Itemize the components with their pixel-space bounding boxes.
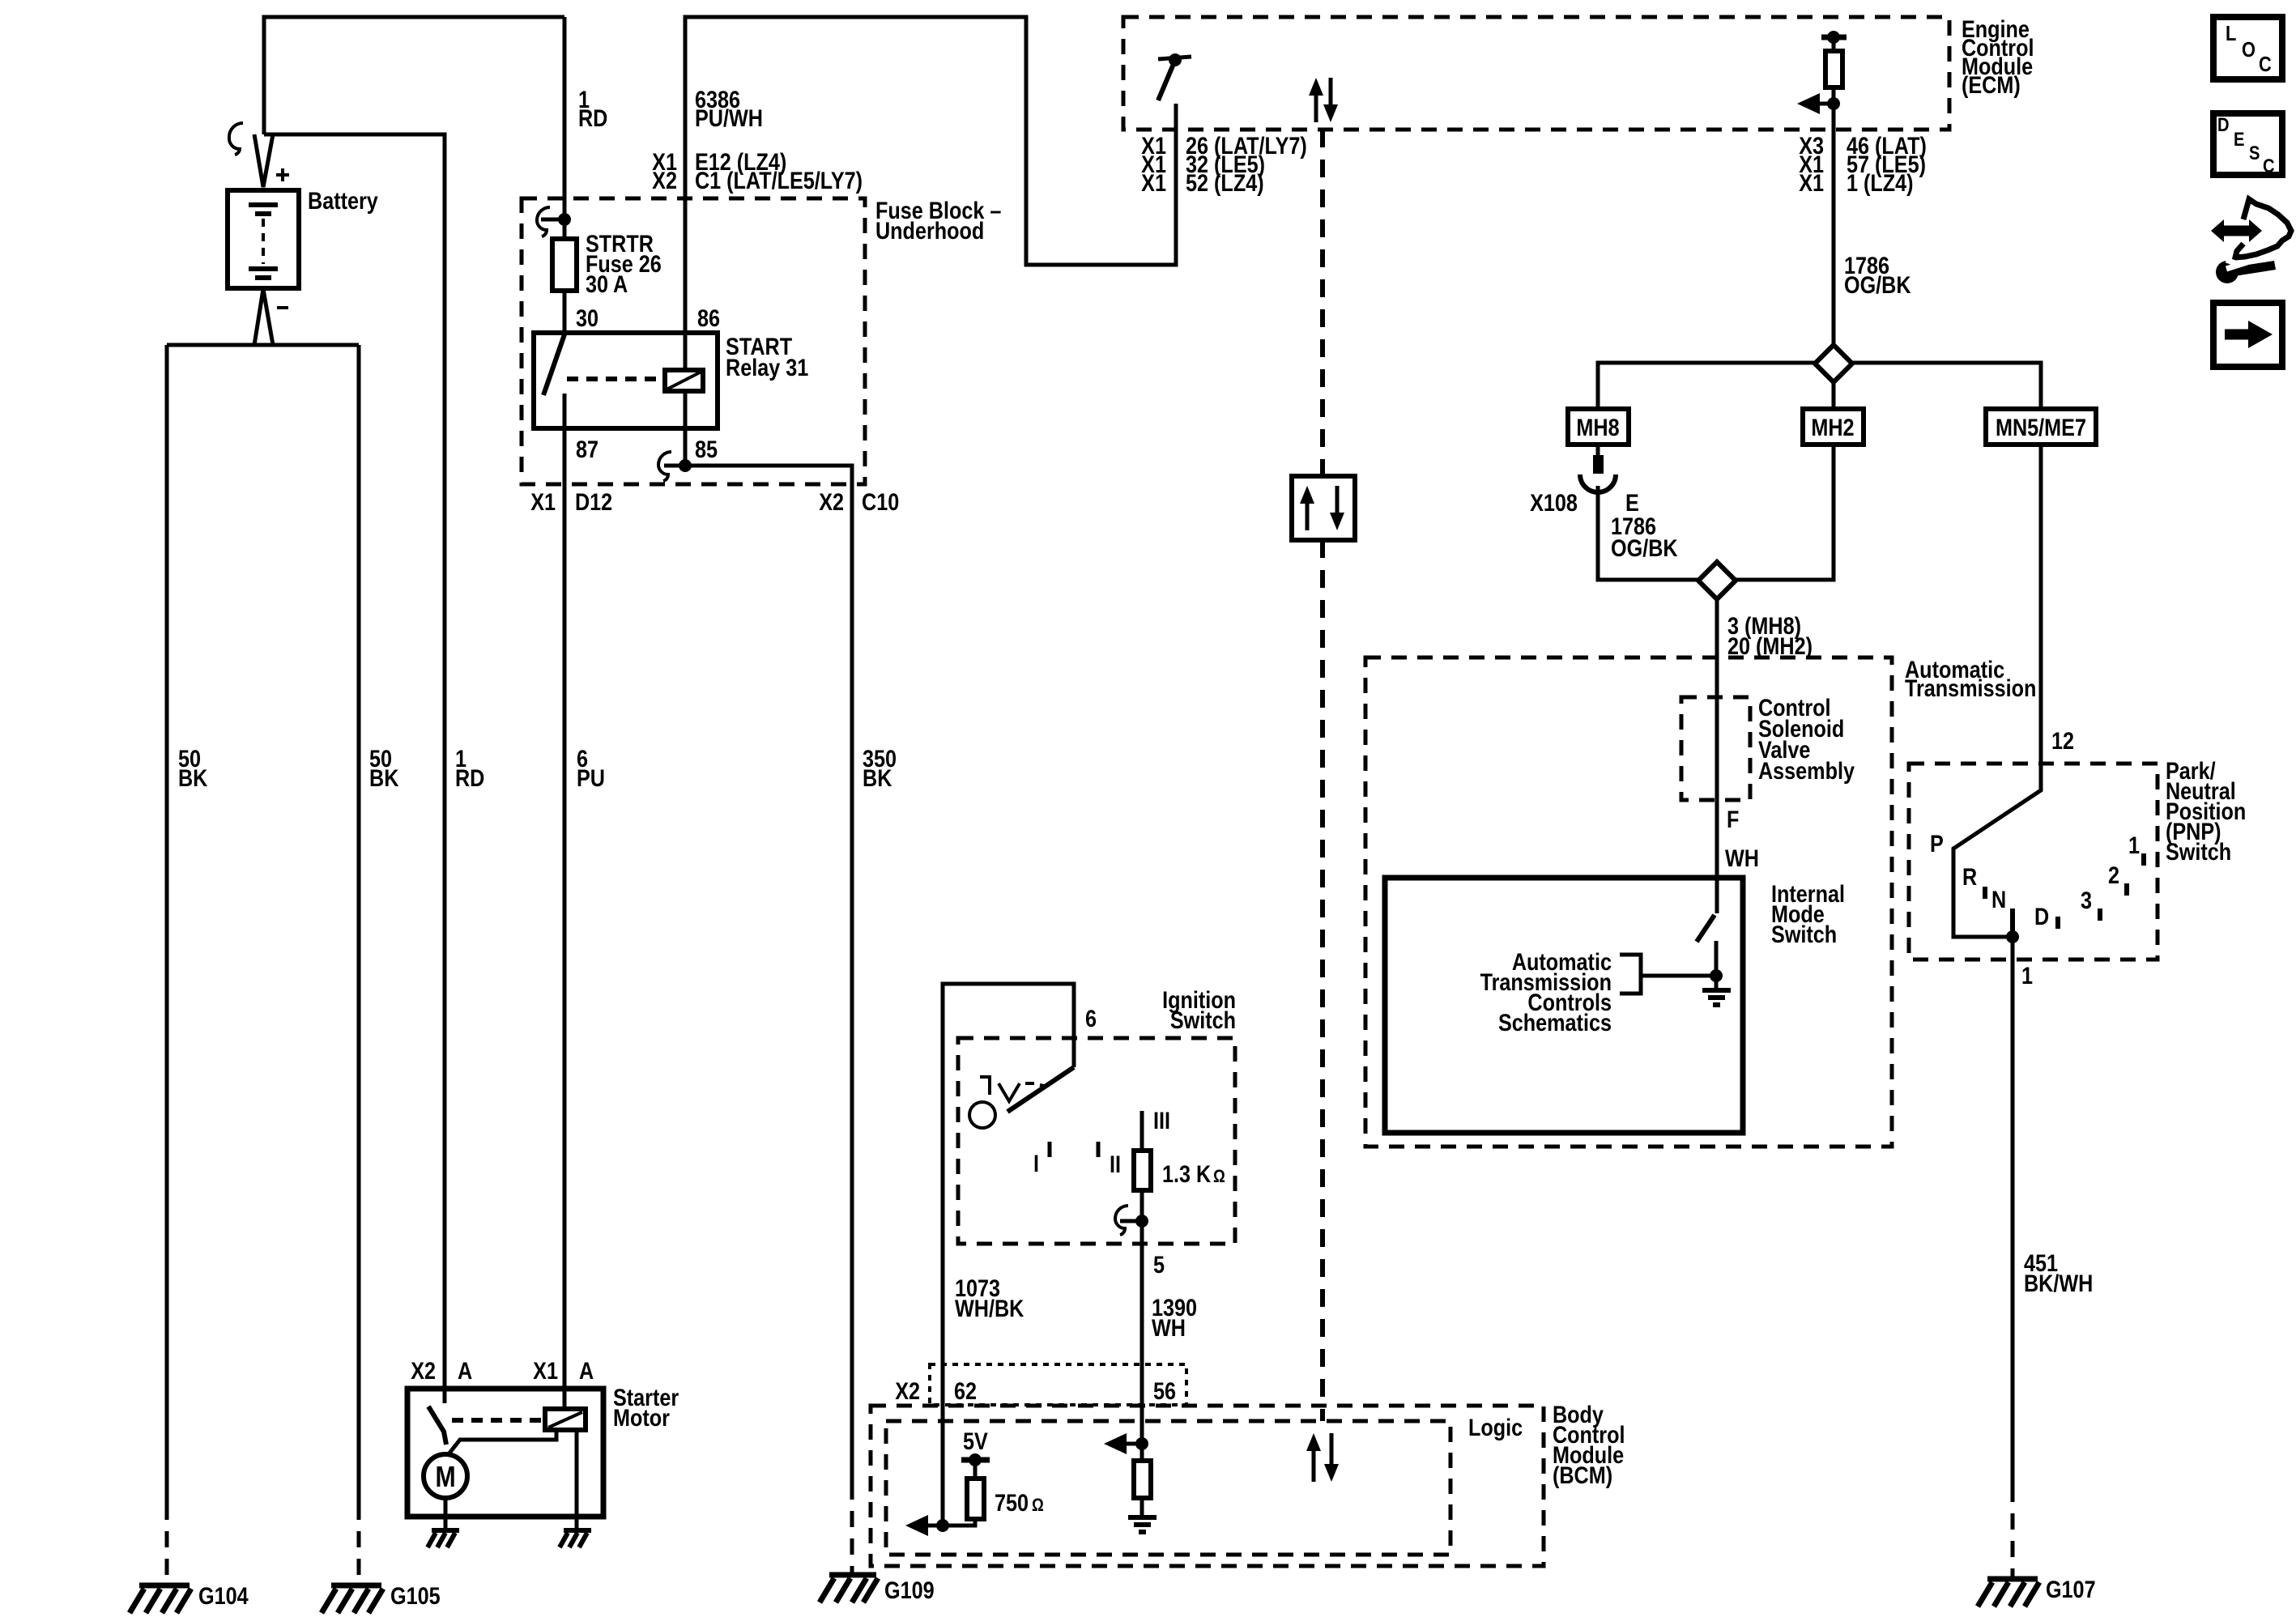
wire 1786 OG/BK from ECM (1832, 130, 1836, 345)
wire 6386 PU/WH (685, 17, 1176, 265)
ECM internal resistor (1832, 37, 1836, 51)
wire 50 BK to G105 (357, 345, 361, 1504)
wire motor to ground (444, 1498, 448, 1530)
ignition switch lever (1007, 1067, 1074, 1112)
wire relay coil to pin 85 (684, 391, 688, 466)
svg-text:62: 62 (954, 1377, 977, 1405)
svg-text:30: 30 (576, 304, 598, 332)
BCM logic data arrows (1306, 1433, 1339, 1482)
svg-text:A: A (579, 1357, 594, 1385)
svg-text:Relay 31: Relay 31 (726, 354, 808, 381)
wire 1 RD battery to starter (264, 134, 445, 1403)
wire splice bus y448 (1598, 363, 2041, 409)
PNP switch dashed box (1909, 764, 2158, 960)
wire 50 BK to G104 (165, 345, 169, 1504)
BCM 5V terminal (961, 1453, 990, 1479)
wire coil to ground (575, 1430, 579, 1530)
svg-text:X1: X1 (530, 488, 556, 516)
BCM logic dashed box (886, 1421, 1450, 1555)
ECM driver switch (1158, 53, 1191, 100)
svg-text:Switch: Switch (1771, 921, 1837, 948)
svg-text:52 (LZ4): 52 (LZ4) (1186, 169, 1264, 197)
svg-text:C10: C10 (862, 488, 899, 516)
svg-text:RD: RD (578, 104, 607, 132)
svg-text:MN5/ME7: MN5/ME7 (1996, 414, 2086, 441)
X108 inline connector (1580, 445, 1616, 492)
wire 1 RD fuse feed (563, 17, 567, 239)
wire MN5/ME7 to PNP pin 12 (1953, 445, 2041, 937)
inner solid box ATCS (1385, 878, 1743, 1133)
svg-text:750: 750 (995, 1489, 1029, 1517)
svg-text:X1: X1 (533, 1357, 558, 1385)
wire battery negative bus (167, 343, 359, 347)
ground starter motor (428, 1530, 459, 1547)
svg-text:(ECM): (ECM) (1962, 71, 2021, 99)
svg-text:BK: BK (369, 764, 398, 792)
starter motor box (407, 1389, 603, 1517)
crimp V at battery positive (254, 134, 273, 187)
svg-text:1.3 K: 1.3 K (1162, 1160, 1211, 1188)
starter solenoid coil (545, 1409, 586, 1430)
starter actuator dashed link (452, 1418, 545, 1423)
ECM B+ terminal (1821, 35, 1847, 40)
internal mode switch (1697, 915, 1723, 982)
svg-text:D: D (2034, 903, 2049, 930)
wire MH2 to lower splice (1736, 445, 1834, 580)
svg-text:G104: G104 (198, 1582, 249, 1610)
battery B1 (228, 168, 299, 308)
svg-text:20 (MH2): 20 (MH2) (1727, 632, 1813, 660)
connector box MN5/ME7 (1986, 409, 2096, 445)
svg-text:MH8: MH8 (1576, 414, 1619, 441)
icon forward arrow box (2213, 303, 2282, 367)
svg-text:Switch: Switch (1170, 1006, 1236, 1034)
svg-text:PU: PU (577, 764, 605, 792)
svg-text:C: C (2263, 155, 2275, 177)
svg-text:Battery: Battery (308, 187, 378, 215)
ignition resistor 1.3 K (1140, 1111, 1144, 1151)
svg-text:Underhood: Underhood (875, 217, 984, 245)
connector box MH2 (1803, 409, 1864, 445)
wire 1786 OG/BK to lower splice (1598, 486, 1698, 580)
svg-text:6: 6 (1085, 1005, 1097, 1032)
bracket to ATCS reference (1620, 955, 1716, 994)
svg-text:WH: WH (1152, 1314, 1186, 1342)
earth ground BCM (1128, 1498, 1157, 1532)
svg-text:L: L (2226, 22, 2236, 45)
ignition position I (1048, 1142, 1052, 1157)
ignition position II (1097, 1142, 1101, 1157)
svg-text:Ω: Ω (1213, 1168, 1225, 1187)
BCM 1390 input arrow junction (1104, 1433, 1148, 1454)
relay coil (665, 370, 703, 391)
wire relay pin 86 from 6386 (684, 198, 688, 370)
svg-text:C: C (2259, 53, 2272, 76)
svg-text:BK: BK (863, 764, 892, 792)
svg-text:MH2: MH2 (1811, 414, 1854, 441)
svg-text:C1 (LAT/LE5/LY7): C1 (LAT/LE5/LY7) (695, 167, 863, 194)
ignition switch dashed box (958, 1038, 1235, 1244)
svg-text:E: E (2234, 128, 2244, 150)
svg-text:O: O (2242, 38, 2256, 62)
icon connector-view hand with arrows and wrench (2211, 199, 2291, 283)
svg-text:Motor: Motor (613, 1404, 670, 1432)
svg-text:1: 1 (2021, 962, 2033, 989)
connector row X2 62/56 dotted box (930, 1364, 1186, 1405)
icon DESC box (2213, 113, 2282, 175)
ground G105 (322, 1585, 383, 1613)
svg-text:WH/BK: WH/BK (955, 1295, 1024, 1322)
svg-text:G107: G107 (2046, 1576, 2096, 1603)
svg-text:D12: D12 (575, 488, 612, 516)
svg-text:5: 5 (1153, 1251, 1165, 1279)
svg-text:X1: X1 (1799, 169, 1824, 197)
wire to internal mode switch (1715, 599, 1719, 913)
svg-text:1: 1 (2128, 832, 2140, 859)
ground G109 (820, 1575, 878, 1602)
svg-text:12: 12 (2051, 727, 2074, 755)
svg-text:X2: X2 (895, 1377, 920, 1405)
relay actuator dashed link (567, 377, 662, 381)
ground G104 (130, 1585, 191, 1613)
svg-text:X108: X108 (1530, 489, 1578, 517)
fuse block underhood dashed box (522, 198, 865, 484)
svg-text:N: N (1991, 886, 2006, 913)
svg-text:86: 86 (697, 304, 720, 332)
N contact stub (2010, 908, 2015, 937)
svg-text:RD: RD (455, 764, 484, 792)
splice diamond upper (1815, 345, 1852, 382)
ground G107 (1978, 1579, 2039, 1606)
svg-text:M: M (435, 1462, 455, 1494)
crimp V at battery negative (254, 289, 273, 345)
wire 451 BK/WH to G107 (2011, 937, 2015, 1486)
BCM pulldown resistor (1140, 1444, 1144, 1461)
ignition key symbol (969, 1075, 1047, 1128)
svg-text:56: 56 (1153, 1377, 1176, 1405)
ECM dashed box (1123, 17, 1949, 130)
svg-text:X2: X2 (652, 167, 677, 194)
splice diamond lower (1698, 562, 1736, 599)
boxed data arrows symbol (1292, 476, 1355, 540)
svg-text:Logic: Logic (1468, 1414, 1523, 1441)
svg-text:G109: G109 (884, 1577, 935, 1604)
svg-text:I: I (1033, 1150, 1039, 1177)
svg-text:87: 87 (576, 436, 598, 463)
svg-text:BK/WH: BK/WH (2024, 1270, 2093, 1297)
clip and junction at fuse top (537, 207, 550, 236)
icon LOC box (2213, 17, 2282, 79)
svg-text:S: S (2249, 142, 2260, 164)
ground starter solenoid (560, 1530, 591, 1547)
wire battery positive top feed (264, 17, 564, 134)
control solenoid valve assembly dashed box (1681, 697, 1750, 800)
svg-text:III: III (1153, 1107, 1170, 1134)
starter motor M (424, 1454, 467, 1498)
svg-text:F: F (1727, 806, 1739, 833)
svg-text:OG/BK: OG/BK (1611, 534, 1678, 562)
svg-text:II: II (1110, 1151, 1121, 1178)
svg-text:A: A (458, 1357, 472, 1385)
clip at relay pin 85 (658, 452, 671, 481)
dashed serial data wire to BCM (1320, 130, 1325, 476)
connector box MH8 (1568, 409, 1629, 445)
svg-text:WH: WH (1725, 845, 1759, 872)
svg-text:OG/BK: OG/BK (1844, 271, 1911, 299)
svg-text:Assembly: Assembly (1758, 757, 1855, 785)
fuse STRTR Fuse 26 30A (552, 239, 577, 291)
svg-text:Ω: Ω (1032, 1496, 1044, 1516)
clip splice at battery positive (229, 123, 243, 155)
node junction in PNP (2006, 930, 2019, 943)
starter switch lever (428, 1406, 446, 1445)
BCM resistor 750 ohm (967, 1479, 984, 1519)
automatic transmission dashed box (1365, 657, 1892, 1147)
svg-text:X2: X2 (819, 488, 844, 516)
relay switch lever (543, 334, 564, 395)
svg-text:3: 3 (2081, 887, 2092, 914)
svg-text:(BCM): (BCM) (1553, 1462, 1612, 1489)
wire motor to coil (448, 1430, 556, 1455)
svg-text:Schematics: Schematics (1498, 1009, 1612, 1036)
wire fuse to relay pin 30 (563, 291, 567, 333)
clip junction at ignition pin 5 (1115, 1206, 1148, 1235)
svg-text:2: 2 (2108, 862, 2119, 889)
svg-text:BK: BK (178, 764, 207, 792)
svg-text:X2: X2 (411, 1357, 436, 1385)
wire 1390 WH to BCM (1140, 1244, 1144, 1444)
relay START Relay 31 box (534, 333, 718, 428)
svg-text:G105: G105 (390, 1582, 441, 1610)
wire 1073 WH/BK riser (943, 984, 1074, 1526)
svg-text:5V: 5V (963, 1428, 988, 1455)
ECM serial data arrows (1309, 78, 1338, 122)
earth ground internal mode switch (1702, 976, 1731, 1005)
BCM pullup to 1073 junction with arrow (905, 1515, 975, 1536)
svg-text:Transmission: Transmission (1905, 674, 2036, 702)
svg-text:PU/WH: PU/WH (695, 104, 763, 132)
svg-text:Switch: Switch (2166, 838, 2231, 866)
BCM dashed box (871, 1406, 1544, 1566)
ECM output arrow junction (1797, 93, 1840, 114)
wire 350 BK pin85 to G109 (679, 459, 692, 472)
svg-text:X1: X1 (1141, 169, 1166, 197)
svg-text:1 (LZ4): 1 (LZ4) (1847, 169, 1914, 197)
svg-text:85: 85 (695, 436, 718, 463)
wire 6 PU relay pin 87 to starter solenoid (563, 394, 567, 1409)
svg-text:30 A: 30 A (586, 270, 628, 298)
PNP position labels and contacts (1985, 853, 2144, 929)
svg-text:R: R (1962, 863, 1977, 891)
svg-text:D: D (2217, 113, 2230, 135)
svg-text:P: P (1930, 830, 1944, 857)
